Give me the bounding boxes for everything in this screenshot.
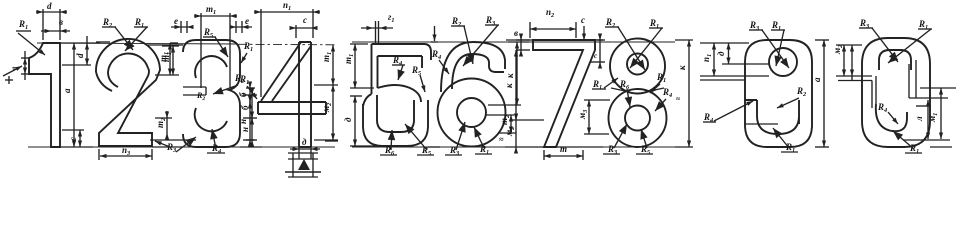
svg-text:к: к — [504, 83, 514, 88]
digit 8 top counter — [627, 54, 648, 75]
digit 4 diagonals — [261, 42, 311, 101]
digit 8 top ring outer — [610, 39, 665, 94]
dim e left fig3 — [171, 16, 194, 33]
dim n3 fig2 — [99, 145, 152, 160]
svg-text:д: д — [343, 117, 353, 122]
equals mark fig8 — [676, 95, 680, 103]
digit 6 ring outer — [438, 79, 506, 147]
label R5 fig5 — [405, 124, 434, 157]
svg-text:л: л — [914, 116, 924, 122]
dim m3 left fig8 — [577, 100, 610, 134]
cap guide fig7-fig8 — [595, 39, 603, 41]
label R3 bottom fig8 — [603, 124, 627, 156]
base stub fig4 — [325, 140, 338, 142]
label R2 fig9 — [777, 86, 806, 108]
label R1 fig9 — [771, 20, 785, 66]
base guide cluster A — [28, 146, 335, 148]
dim e right fig3 — [230, 16, 253, 33]
arrow b fig5 — [432, 26, 436, 41]
digit 8 bottom ring outer — [609, 89, 667, 147]
svg-text:д: д — [302, 137, 307, 147]
svg-text:d: d — [75, 53, 85, 58]
svg-text:д: д — [716, 51, 726, 56]
dim c right fig7 — [581, 15, 605, 69]
base guide cluster B — [352, 146, 693, 148]
dimension a fig1 — [62, 43, 76, 147]
dim n2 fig7 — [530, 7, 576, 38]
label R1 bottom fig0 — [893, 131, 952, 155]
dim m1 right fig0 — [903, 88, 956, 140]
digit 6 ring inner — [457, 98, 486, 127]
label R2 mid fig3 — [213, 73, 244, 94]
base guide fig7 — [556, 146, 603, 148]
dim k left fig7 — [504, 50, 518, 120]
digit 5 outline — [372, 44, 432, 94]
dim k right fig6 — [488, 42, 529, 105]
digit 3 bottom inner arc — [195, 108, 227, 131]
label R4 fig0 — [877, 102, 898, 124]
svg-text:c: c — [594, 52, 597, 60]
dim m2 right fig9 — [0, 0, 1, 1]
label R1 left fig8 — [592, 78, 618, 91]
digit 4 bottom detail — [285, 137, 321, 177]
digit 8 waist right — [645, 88, 664, 92]
dim n right fig3 — [240, 112, 257, 147]
dimension d top fig1 — [36, 1, 67, 40]
digit 0 slot right — [909, 98, 948, 106]
digit 5 middle — [363, 85, 421, 106]
label R4 fig9 — [703, 101, 753, 124]
label R4 fig3 — [207, 129, 225, 155]
label R5 fig3 — [203, 27, 228, 57]
svg-text:e: e — [245, 16, 249, 26]
svg-text:в: в — [59, 17, 63, 27]
label R4 low right fig8 — [655, 87, 672, 111]
dim b left fig4 — [238, 82, 255, 109]
dim g1 fig5 — [361, 12, 394, 44]
left margin arrow — [3, 66, 22, 84]
cap guide cluster A — [37, 43, 335, 45]
base guide fig2-fig3 — [152, 146, 183, 148]
approx mark fig6 — [499, 135, 504, 144]
dim n left fig4 — [238, 96, 255, 147]
svg-text:a: a — [62, 88, 72, 93]
dimension b stem fig1 — [41, 17, 70, 33]
label R4 fig5 — [392, 55, 405, 80]
digit 9 bottom slot — [745, 123, 778, 125]
digit 3 outer — [183, 40, 240, 147]
svg-text:c: c — [68, 137, 78, 141]
label R1 fig1 — [16, 19, 45, 55]
label R3 bottom fig6 — [445, 122, 466, 157]
dim m2 left fig7 — [504, 114, 544, 154]
digit 5 bowl outer — [363, 100, 428, 146]
dimension d right fig1 — [62, 36, 91, 65]
digit 0 outer — [862, 38, 930, 147]
label R3 fig6 — [463, 15, 499, 66]
dim m2 right fig6 — [486, 115, 516, 133]
digit 0 top counter — [879, 50, 911, 70]
label R6 centre fig8 — [619, 79, 632, 107]
svg-text:d: d — [47, 1, 52, 11]
label R4 fig6 — [431, 49, 449, 74]
dim b right fig3 — [240, 89, 257, 125]
dim m1 right fig2 — [155, 46, 179, 75]
digit 7 outline — [533, 40, 595, 147]
label R2 fig2 — [102, 17, 133, 50]
label R3 fig0 — [859, 18, 898, 62]
label R6 fig5 — [380, 130, 397, 157]
dimension b flag fig1 — [9, 51, 29, 80]
svg-text:c: c — [303, 15, 307, 25]
dim n1 fig4 — [254, 0, 320, 97]
svg-text:б: б — [238, 92, 248, 97]
dim b left fig0 — [832, 45, 862, 80]
dim d left fig5 — [343, 96, 378, 146]
digit 9 top slot — [700, 64, 769, 80]
svg-text:н: н — [240, 127, 250, 132]
digit 3 top inner arc — [195, 56, 227, 78]
digit 8 bottom counter — [625, 106, 650, 131]
label R1 fig3 — [241, 41, 253, 63]
digit 1 outline — [29, 43, 60, 147]
digit 0 bottom counter — [876, 104, 907, 131]
label R5 bottom fig8 — [636, 129, 653, 156]
label R3 fig9 — [749, 20, 789, 68]
digit 5 bowl inner — [377, 95, 414, 132]
svg-text:e: e — [174, 16, 178, 26]
digit 6 top arch inner — [452, 54, 504, 89]
dim d left fig9 — [716, 43, 731, 64]
dim c fig4 — [290, 15, 318, 38]
dim k right fig8 — [675, 40, 693, 147]
digit 9 outer — [745, 40, 812, 147]
digit 9 bottom inner — [745, 100, 799, 134]
label R1 fig4 — [239, 74, 257, 99]
svg-text:≈: ≈ — [676, 95, 680, 103]
dim m1 top fig3 — [194, 4, 237, 88]
label R3 fig2 and fig3 — [155, 137, 196, 154]
svg-text:к: к — [505, 73, 515, 78]
dim m1 left fig3 — [158, 43, 178, 75]
cap guide fig6-fig7 — [506, 39, 533, 41]
dim l right fig0 — [914, 100, 930, 139]
svg-text:m: m — [560, 144, 567, 154]
cap guide line fig1 — [60, 42, 100, 44]
digit 4 bar — [258, 102, 326, 114]
guide stub y140 fig3 — [150, 139, 196, 141]
label R2 fig3 — [196, 91, 205, 102]
svg-text:к: к — [677, 65, 687, 70]
svg-text:c: c — [581, 15, 585, 25]
digit 3 waist slot — [183, 87, 206, 95]
label R2 fig8 — [605, 17, 645, 70]
label R1 fig2 — [125, 17, 148, 51]
svg-text:в: в — [514, 28, 518, 38]
digit 0 slot left — [836, 76, 872, 81]
dim m1 left fig5 — [343, 44, 374, 88]
digit 0 left channel — [872, 76, 876, 108]
label R1 fig8 — [630, 18, 663, 68]
cap guide fig2 — [96, 41, 110, 43]
cap guide fig5-fig6 — [431, 41, 438, 43]
label R1 fig0 — [888, 19, 932, 63]
label R1 bottom fig9 — [773, 128, 798, 154]
base guide fig5 — [428, 146, 440, 148]
base guide fig3-fig4 — [240, 146, 262, 148]
svg-text:a: a — [812, 77, 822, 82]
dim m1 right fig4 — [314, 45, 338, 85]
cap guide cluster B — [352, 41, 675, 43]
dimension c fig1 — [62, 130, 84, 147]
dim m bottom fig7 — [544, 144, 583, 160]
label R1 right fig8 — [650, 72, 666, 93]
digit 6 top arch outer — [441, 42, 505, 92]
dim m2 right fig2 — [155, 111, 172, 140]
base guide line fig1 — [60, 146, 93, 148]
digit 2 outline — [96, 39, 160, 146]
base guide fig6-fig7 — [505, 146, 544, 148]
dim n1 left fig9 — [700, 43, 749, 76]
dim b left fig7 — [514, 28, 530, 57]
label R2 fig6 — [451, 16, 474, 64]
svg-text:н: н — [238, 119, 248, 124]
dim m2 right fig4 — [314, 85, 338, 140]
digit 0 right channel — [909, 60, 916, 98]
label R5 right fig5 — [411, 65, 425, 92]
digit 8 waist left — [611, 88, 630, 92]
label R1 bottom fig6 — [474, 127, 492, 156]
digit 4 stem — [299, 42, 311, 147]
cap guide fig2-fig3 — [148, 44, 183, 46]
digit 9 top counter — [769, 48, 797, 76]
dim a right fig9 — [812, 40, 829, 147]
